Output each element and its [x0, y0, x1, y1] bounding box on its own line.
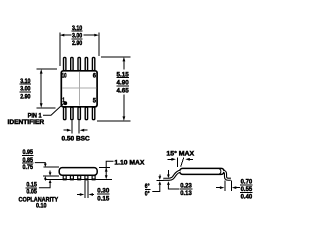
pin 1 identifier dot	[63, 101, 67, 105]
center cross mark	[62, 72, 96, 106]
left dimension line with arrows	[40, 69, 43, 108]
15 deg angle lines	[178, 158, 184, 167]
svg-text:5: 5	[93, 98, 96, 105]
0.15 dim leader and arrows (standoff)	[39, 171, 52, 188]
svg-text:15° MAX: 15° MAX	[166, 150, 194, 158]
svg-text:0.05: 0.05	[26, 189, 37, 196]
svg-text:10: 10	[62, 73, 67, 80]
side view leads	[63, 176, 95, 179]
right lead (end view)	[223, 171, 231, 179]
0.30/0.15 lead width dimension	[77, 181, 94, 198]
0.50 BSC dimension	[64, 121, 88, 134]
right dimension 5.15/4.90/4.65	[116, 71, 129, 94]
6/0 deg arrows	[152, 174, 161, 191]
svg-text:0.10: 0.10	[36, 203, 47, 210]
top dim extension lines	[60, 32, 99, 66]
package body (top view)	[61, 71, 97, 107]
1.10 MAX top extension line	[99, 166, 110, 168]
svg-text:4.65: 4.65	[117, 88, 130, 95]
svg-text:0.15: 0.15	[97, 195, 109, 202]
bottom pin row (pins 1-5)	[64, 107, 95, 120]
6/0 deg dimension	[145, 182, 151, 198]
svg-text:IDENTIFIER: IDENTIFIER	[8, 119, 45, 126]
left lead (end view)	[163, 171, 180, 179]
15 deg arrows	[167, 158, 193, 161]
lead feet	[63, 179, 96, 181]
0.95 dim leader and arrows (body thickness)	[35, 163, 47, 181]
svg-text:6°: 6°	[145, 182, 150, 190]
right dimension line with arrows	[123, 57, 126, 121]
0.95/0.85/0.75 dimension text	[22, 149, 33, 171]
svg-text:1.10 MAX: 1.10 MAX	[114, 159, 145, 166]
package body (end view capsule)	[180, 168, 225, 174]
svg-text:0.13: 0.13	[180, 190, 192, 197]
seating plane line	[45, 178, 112, 180]
svg-text:0.50 BSC: 0.50 BSC	[62, 135, 90, 142]
right dim extension lines	[97, 57, 130, 121]
pin 1 leader line	[43, 104, 64, 116]
6/0 deg reference line	[156, 179, 163, 181]
0.23/0.13 lead thickness dimension	[167, 170, 179, 189]
0.15/0.05 dimension text	[26, 182, 38, 196]
svg-text:0.40: 0.40	[241, 194, 253, 201]
body top extension line	[43, 166, 58, 168]
PIN 1 IDENTIFIER label	[8, 113, 45, 126]
top pin row (pins 6-10)	[64, 57, 95, 70]
left dimension 3.10/3.00/2.90	[20, 78, 31, 101]
svg-text:2.90: 2.90	[20, 93, 31, 100]
1.10 MAX dim line and arrows	[105, 161, 114, 179]
package body (side view)	[59, 168, 97, 176]
svg-text:2.90: 2.90	[72, 40, 83, 47]
top dimension line with arrows	[60, 34, 99, 37]
svg-text:0.30: 0.30	[97, 188, 109, 195]
body bottom extension line	[43, 175, 59, 177]
0.70/0.55/0.40 foot length dimension	[216, 180, 240, 190]
svg-text:6: 6	[93, 73, 96, 80]
left dim extension lines	[37, 69, 58, 108]
svg-text:0.23: 0.23	[180, 182, 192, 189]
svg-text:0.75: 0.75	[23, 164, 34, 171]
body end inner arc	[219, 169, 221, 174]
svg-text:0°: 0°	[145, 190, 150, 198]
top dimension 3.10/3.00/2.90	[72, 25, 83, 47]
